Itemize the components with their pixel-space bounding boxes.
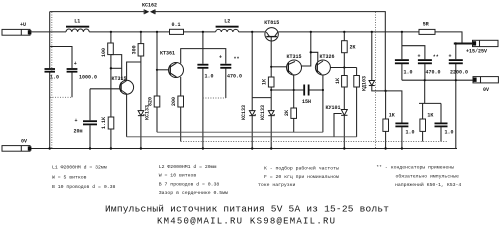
resistor R1Ka — [335, 76, 347, 88]
svg-text:0V: 0V — [21, 139, 27, 145]
node C8 at 0V — [455, 79, 457, 81]
wire R1Kb bottom to bus H3 — [356, 87, 358, 137]
wire main SR to output corner — [435, 32, 462, 44]
svg-text:W = 10 витков: W = 10 витков — [159, 172, 197, 178]
wire R100 top lead — [110, 32, 112, 43]
wire C4 bottom — [225, 68, 227, 98]
wire diode to feedback node — [372, 86, 386, 91]
node rail at VZ1 — [251, 147, 253, 149]
svg-text:+15/25V: +15/25V — [466, 49, 487, 55]
transistor VT3 KT815 — [264, 20, 279, 41]
svg-text:1.0: 1.0 — [205, 74, 214, 80]
svg-text:L2: L2 — [224, 19, 230, 25]
svg-text:В 10 проводов d = 0.38: В 10 проводов d = 0.38 — [52, 184, 115, 190]
svg-text:напряжений К50-1, К53-4: напряжений К50-1, К53-4 — [395, 181, 461, 188]
wire base column lower — [270, 87, 272, 111]
wire dashed column to zener pair — [251, 32, 253, 98]
wire R1K1 bottom — [385, 131, 387, 148]
wire loop to VT1 base — [111, 55, 122, 80]
node VT4 emitter at 15n wire — [293, 89, 295, 91]
svg-text:1.0: 1.0 — [445, 130, 454, 136]
note block L2 — [159, 164, 228, 196]
node main wire at C3 — [202, 31, 204, 33]
note block L1 — [52, 165, 115, 191]
wire R820 bottom to bus H2 — [156, 107, 158, 132]
svg-text:+: + — [75, 118, 78, 124]
wire 15n right segment — [309, 89, 323, 91]
wire bus H2 — [157, 131, 323, 133]
wire R1.1K bottom to rail — [110, 129, 112, 149]
node rail at VS1 — [343, 147, 345, 149]
wire bus H3 — [127, 136, 357, 138]
wire 15n left segment — [271, 89, 303, 91]
wire R100 bottom to R1.1K column — [110, 55, 112, 117]
wire horizontal link at y88.8 — [90, 88, 120, 90]
node main wire at C6 — [401, 31, 403, 33]
node main wire at R300 — [140, 31, 142, 33]
svg-text:100: 100 — [101, 48, 107, 57]
capacitor C7 470.0 (output) — [418, 54, 441, 76]
diode KC162 (two-anode zener) — [142, 3, 157, 15]
node R100 column junction — [110, 67, 112, 69]
resistor R1K1 — [383, 113, 395, 132]
wire VD1 bottom to rail — [140, 116, 142, 149]
resistor R300 — [131, 44, 143, 56]
svg-text:КТ815: КТ815 — [264, 20, 279, 26]
capacitor C4 470.0 — [219, 55, 242, 80]
thyristor VS1 KY101 — [326, 105, 348, 137]
capacitor C1 1.0 (input, on left rail) — [45, 68, 60, 80]
wire VT4 base line — [271, 66, 287, 68]
wire dashed zener top link — [252, 97, 271, 99]
svg-text:КС133: КС133 — [145, 105, 151, 120]
svg-text:20м: 20м — [74, 129, 83, 135]
capacitor C6 1.0 (output) — [395, 59, 413, 75]
wire VT4 collector to drive node — [301, 52, 311, 66]
wire C10 bottom — [401, 127, 403, 149]
terminal X1 +U input — [2, 22, 31, 35]
svg-text:КТ315: КТ315 — [287, 54, 302, 60]
wire R1Ka bottom to thyristor — [343, 87, 345, 110]
wire R2K bottom to bus H2 — [293, 118, 295, 132]
svg-text:2К: 2К — [350, 45, 356, 51]
wire zener1 top stub — [251, 98, 253, 111]
svg-text:КТ315: КТ315 — [112, 76, 127, 82]
wire C3 bottom to rail — [202, 68, 204, 148]
node C7 at 0V — [424, 79, 426, 81]
svg-text:1К: 1К — [389, 113, 395, 119]
wire R1Kb top lead — [356, 68, 358, 76]
node at 15n wire — [270, 89, 272, 91]
resistor R820 — [147, 96, 159, 107]
wire VT2 base column — [156, 32, 158, 96]
transistor VT1 KT315 — [112, 76, 134, 94]
svg-text:КУ101: КУ101 — [326, 105, 341, 111]
wire top line to right corner and drop — [155, 12, 385, 91]
svg-text:К - подбор рабочей частоты: К - подбор рабочей частоты — [264, 165, 339, 172]
wire left rail — [49, 12, 51, 69]
svg-text:+U: +U — [20, 22, 26, 28]
capacitor C9 20u — [74, 118, 98, 135]
wire thick to +out terminal — [454, 43, 473, 45]
wire main after L1 — [89, 31, 169, 33]
wire 0V output line — [402, 79, 473, 81]
wire dotted C2 return to rail — [50, 96, 72, 98]
svg-text:1000.0: 1000.0 — [79, 75, 97, 81]
svg-text:820: 820 — [147, 97, 153, 106]
node rail at R1K1 — [384, 147, 386, 149]
node rail at VD1 — [140, 147, 142, 149]
capacitor C11 1.0 — [435, 123, 454, 136]
wire jog to C7 top — [402, 46, 425, 60]
wire C9 bottom to rail — [89, 125, 91, 148]
node main wire at VT2 base column — [156, 31, 158, 33]
zener VZ2 KC133 — [260, 105, 274, 120]
svg-text:1.0: 1.0 — [404, 70, 413, 76]
node VT5 emitter at 15n wire — [322, 89, 324, 91]
svg-text:Зазор в сердечнике 0.5мм: Зазор в сердечнике 0.5мм — [159, 190, 228, 196]
resistor R1.1K — [101, 117, 114, 129]
svg-text:** - конденсаторы применены: ** - конденсаторы применены — [376, 165, 454, 171]
svg-text:КС162: КС162 — [142, 3, 157, 9]
svg-text:F = 20 кгц при номинальном: F = 20 кгц при номинальном — [264, 174, 339, 180]
svg-text:КТ326: КТ326 — [320, 54, 335, 60]
svg-text:L1 Ф2000НМ d = 32мм: L1 Ф2000НМ d = 32мм — [52, 165, 107, 171]
node rail at C9 — [89, 147, 91, 149]
svg-text:обязательно импульсные: обязательно импульсные — [396, 173, 459, 179]
wire R300 top lead — [140, 32, 142, 44]
capacitor C10 1.0 — [395, 123, 414, 136]
transistor VT4 KT315 — [287, 54, 302, 75]
wire R2K bottom to node — [343, 53, 345, 68]
svg-text:KM450@MAIL.RU KS98@EMAIL.RU: KM450@MAIL.RU KS98@EMAIL.RU — [157, 217, 335, 227]
svg-text:**: ** — [433, 55, 439, 61]
zener VD1 KC133 — [138, 105, 151, 120]
wire node to C10 column — [386, 91, 402, 123]
node feedback supply — [384, 90, 386, 92]
wire VT2 top to C4 — [181, 49, 226, 64]
wire C6 bottom to 0V — [401, 64, 403, 80]
wire 0V drop to bottom rail — [455, 64, 457, 149]
wire dotted C4 return — [203, 97, 226, 99]
wire VT1 collector jog — [127, 62, 141, 80]
note block ** — [376, 165, 461, 188]
wire C9 20u top column — [89, 89, 91, 121]
node at R2K top / VT5 — [343, 66, 345, 68]
wire VT2 base lead — [157, 69, 169, 71]
scan dotted line left — [51, 12, 53, 148]
resistor 5R (series out) — [419, 22, 435, 35]
capacitor C5 15n — [302, 85, 311, 106]
wire VT5 emitter drop — [322, 75, 324, 132]
wire top zener feed line — [50, 11, 144, 13]
svg-text:1К: 1К — [335, 78, 341, 84]
wire 0V drop to lower divider — [424, 80, 426, 103]
wire VT1 emitter drop to bus H3 — [126, 94, 128, 137]
wire C3 top column — [202, 32, 204, 64]
wire VT5 right lead to node — [330, 67, 356, 69]
svg-text:L2 Ф2000НМ1 d = 20мм: L2 Ф2000НМ1 d = 20мм — [159, 164, 217, 170]
svg-text:2200.0: 2200.0 — [450, 70, 468, 76]
svg-text:1К: 1К — [427, 113, 433, 119]
wire R2K top lead — [343, 32, 345, 41]
transistor VT2 KT361 — [160, 51, 184, 78]
wire C6 top column — [401, 32, 403, 59]
node main wire at feedback diode — [371, 31, 373, 33]
node main wire at VT5 feed — [310, 31, 312, 33]
wire VS1 cathode to rail — [343, 115, 345, 148]
capacitor C2 1000.0 electrolytic — [67, 61, 97, 81]
wire branch to C2 — [50, 47, 72, 69]
wire R1Ka top lead — [343, 68, 345, 76]
wire main KT815 to SR — [278, 31, 419, 33]
inductor L2 — [216, 19, 239, 32]
svg-text:5R: 5R — [423, 22, 429, 28]
wire main L2 to KT815 — [239, 31, 265, 33]
node output +line — [455, 42, 458, 45]
svg-text:**: ** — [234, 57, 240, 63]
node drive junction — [310, 51, 312, 53]
node VT2 base — [156, 69, 158, 71]
svg-text:2К: 2К — [284, 110, 290, 116]
diode VD2 KD103 — [362, 76, 375, 91]
svg-text:W = 5 витков: W = 5 витков — [52, 174, 87, 180]
wire bus dotted H4 — [181, 141, 448, 143]
wire diode column upper — [371, 32, 373, 81]
svg-text:300: 300 — [131, 45, 137, 54]
svg-text:470.0: 470.0 — [227, 74, 242, 80]
transistor VT5 KT326 — [315, 54, 334, 75]
svg-text:L1: L1 — [74, 19, 80, 25]
svg-text:+: + — [418, 54, 421, 60]
wire R300 bottom to zener VD1 — [140, 56, 142, 111]
svg-text:200: 200 — [171, 97, 177, 106]
svg-text:0.1: 0.1 — [172, 22, 181, 28]
wire R1K1 top lead — [385, 91, 387, 119]
wire VT2 bottom to R200 — [180, 77, 182, 96]
resistor R1K2 — [420, 113, 434, 132]
wire C2 bottom — [71, 72, 73, 97]
svg-text:15Н: 15Н — [302, 99, 311, 105]
wire VT3 base column — [270, 37, 272, 77]
svg-text:КД103: КД103 — [362, 76, 368, 91]
node rail at C3 — [202, 147, 204, 149]
resistor R2K (collector load) — [342, 41, 356, 53]
wire main +U line — [30, 31, 66, 33]
wire C8 top stub — [455, 44, 457, 60]
svg-text:В 7 проводов d = 0.38: В 7 проводов d = 0.38 — [159, 181, 220, 187]
node rail at VZ2 — [270, 147, 272, 149]
svg-text:КТ361: КТ361 — [160, 51, 175, 57]
note block K — [258, 165, 339, 189]
svg-text:1.0: 1.0 — [406, 130, 415, 136]
svg-text:0V: 0V — [483, 87, 489, 93]
wire VT4 emitter drop — [293, 74, 295, 108]
wire main between 0.1 and L2 — [184, 31, 216, 33]
terminal X2 0V input — [2, 139, 31, 152]
node rail at left rail — [49, 147, 51, 149]
wire C11 top lead — [440, 103, 442, 122]
zener VZ1 KC133 — [241, 105, 255, 120]
svg-text:1.1К: 1.1К — [101, 117, 107, 129]
wire R1K2 top lead — [422, 103, 424, 119]
wire R1K2 bottom — [422, 131, 424, 141]
svg-text:+: + — [449, 54, 452, 60]
svg-text:Импульсный источник питания 5: Импульсный источник питания 5V 5A из 15-… — [105, 204, 389, 215]
wire VT5 collector feed jog — [311, 32, 318, 63]
svg-text:КС133: КС133 — [260, 105, 266, 120]
capacitor C3 1.0 — [197, 64, 213, 80]
terminal X3 +15/25V output — [466, 40, 498, 54]
svg-text:КС133: КС133 — [241, 105, 247, 120]
resistor R2K (divider) — [284, 108, 296, 118]
terminal X4 0V output — [473, 77, 498, 93]
scan dotted line right — [375, 12, 377, 148]
node main wire at R2K — [343, 31, 345, 33]
node main wire at dashed divider column — [251, 31, 253, 33]
wire C7 bottom to 0V — [424, 64, 426, 80]
svg-text:470.0: 470.0 — [426, 70, 441, 76]
wire lower divider link — [419, 102, 441, 104]
resistor R1K (base) — [262, 77, 274, 87]
svg-text:1К: 1К — [262, 79, 268, 85]
resistor R1Kb — [354, 76, 360, 88]
node rail at R1.1K — [110, 147, 112, 149]
wire VZ1 to rail — [251, 116, 253, 149]
resistor R100 — [101, 43, 113, 57]
svg-text:токе нагрузки: токе нагрузки — [258, 183, 296, 188]
svg-text:+: + — [74, 61, 77, 67]
wire bottom 0V rail — [30, 148, 457, 150]
inductor L1 — [66, 19, 89, 32]
resistor 0.1 (series) — [170, 22, 184, 34]
svg-text:+: + — [219, 55, 222, 61]
wire VZ2 to rail — [270, 116, 272, 149]
resistor R200 — [171, 96, 183, 107]
capacitor C8 2200.0 (output) — [449, 54, 469, 76]
node main wire at R100 — [110, 31, 112, 33]
wire R200 bottom to dotted bus — [180, 107, 182, 142]
node rail at C10 — [401, 147, 403, 149]
wire C11 bottom — [440, 127, 442, 142]
